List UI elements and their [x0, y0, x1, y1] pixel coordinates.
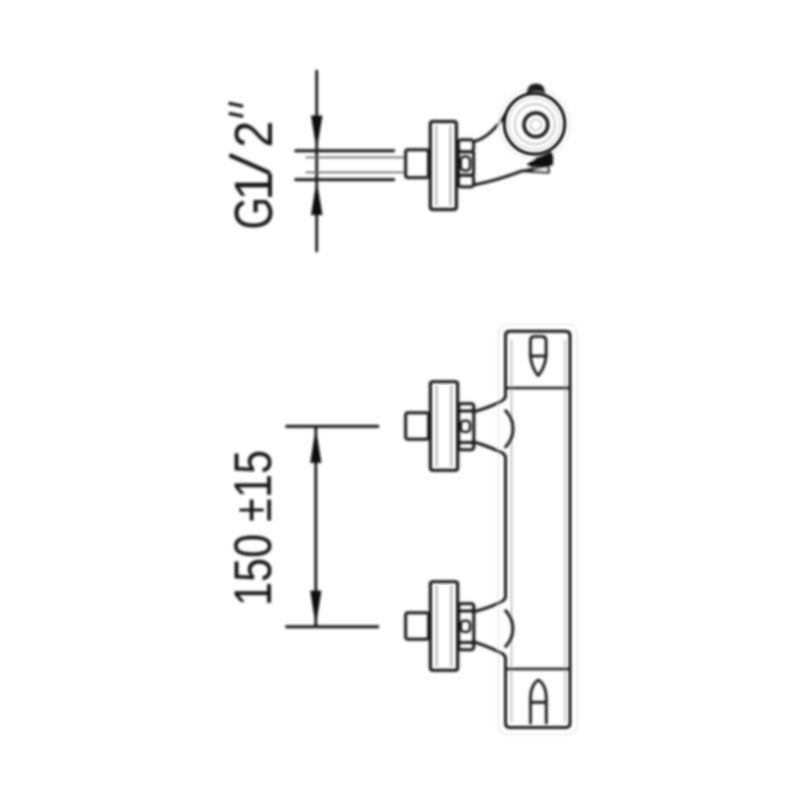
svg-text:2: 2 [223, 121, 284, 148]
upper flange shading faint [437, 386, 452, 466]
bottom keyhole slot [531, 680, 547, 723]
lower handle nut [459, 604, 474, 650]
upper nut facet highlight [461, 421, 470, 432]
dimension tick top (150) [287, 425, 378, 428]
upper handle wall flange [430, 382, 457, 471]
mixer bar body outline [506, 331, 571, 727]
svg-text:150 ±15: 150 ±15 [224, 450, 283, 606]
knob outer circle [504, 94, 564, 154]
lower handle wall flange [430, 582, 457, 671]
body shading faint [512, 340, 566, 722]
pipe outline faint [306, 157, 406, 172]
lower nut facet highlight [461, 621, 470, 632]
extension line top (pipe OD) [296, 149, 394, 152]
dimension line vertical (G1/2) [315, 71, 318, 251]
body bottom cap line [506, 668, 571, 671]
dimension text G1/2" double prime [230, 103, 242, 116]
arrowhead down (G1/2) [311, 116, 322, 151]
nut facet highlight [461, 157, 470, 171]
arrowhead up (150) [310, 427, 321, 463]
pipe stub (side view) [406, 150, 429, 178]
upper handle pipe stub [406, 413, 429, 439]
arrowhead up (G1/2) [311, 180, 322, 215]
dimension text G1/2" slash [231, 156, 268, 173]
dimension text 150 ±15 [224, 450, 283, 606]
knob inner circle [524, 113, 548, 137]
lever handle triangle [522, 166, 548, 172]
dimension tick bottom (150) [287, 625, 378, 628]
knob top tab [526, 84, 545, 94]
upper handle cone top [475, 396, 506, 412]
upper handle bell rim arc [506, 411, 513, 447]
knob center dot faint [530, 119, 541, 130]
flange shading faint [436, 126, 450, 205]
svg-text:1: 1 [224, 171, 284, 201]
valve body cone top curve (side view) [474, 111, 508, 142]
lower handle cone bottom [475, 642, 506, 659]
wall flange (side view) [430, 122, 456, 210]
lower handle bell rim arc [506, 611, 513, 647]
lower flange shading faint [437, 586, 452, 666]
lower handle cone top [475, 597, 506, 612]
lever hub dark wedge [527, 152, 554, 167]
knob halo ring faint [499, 88, 570, 159]
top keyhole slot [530, 337, 546, 376]
upper handle cone bottom [475, 442, 506, 458]
upper handle nut [459, 404, 474, 450]
body halo faint [499, 325, 578, 735]
body top cap line [506, 387, 571, 390]
knob mid ring faint [515, 104, 555, 144]
lower handle pipe stub [406, 613, 429, 639]
dimension line vertical (150) [314, 428, 317, 627]
extension line bottom (pipe OD) [296, 178, 394, 181]
valve body cone bottom curve (side view) [474, 171, 523, 185]
dimension text G1/2" [223, 121, 285, 230]
arrowhead down (150) [310, 591, 321, 627]
union nut (side view) [458, 140, 473, 187]
